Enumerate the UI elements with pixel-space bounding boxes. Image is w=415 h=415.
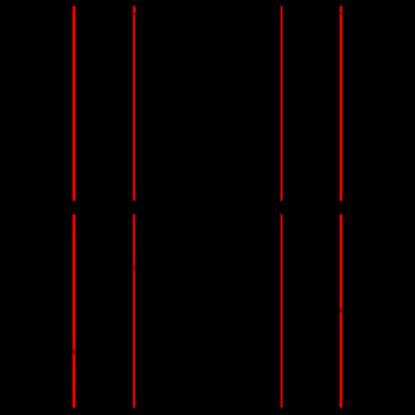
vline 4 top segment bbox=[340, 6, 343, 201]
vline 3 top segment bbox=[281, 6, 283, 201]
vline 1 bottom segment bbox=[73, 214, 76, 407]
vline 4 top notch bbox=[340, 12, 341, 14]
vline 1 top segment bbox=[73, 6, 76, 201]
vline 4 bottom left-center notch bbox=[340, 309, 342, 312]
vline 2 bottom right-side notch bbox=[134, 267, 135, 271]
vline 2 top bulge bbox=[135, 8, 136, 13]
vline 2 top notch bbox=[134, 13, 135, 15]
vline 1 bottom kink upper-left notch bbox=[72, 349, 74, 352]
vline 1 bottom kink lower-right notch bbox=[74, 352, 76, 354]
vline 3 bottom segment bbox=[281, 214, 283, 407]
vline 2 bottom segment bbox=[133, 214, 135, 407]
vline 4 bottom segment bbox=[340, 214, 343, 407]
vline 2 top segment bbox=[133, 6, 135, 201]
